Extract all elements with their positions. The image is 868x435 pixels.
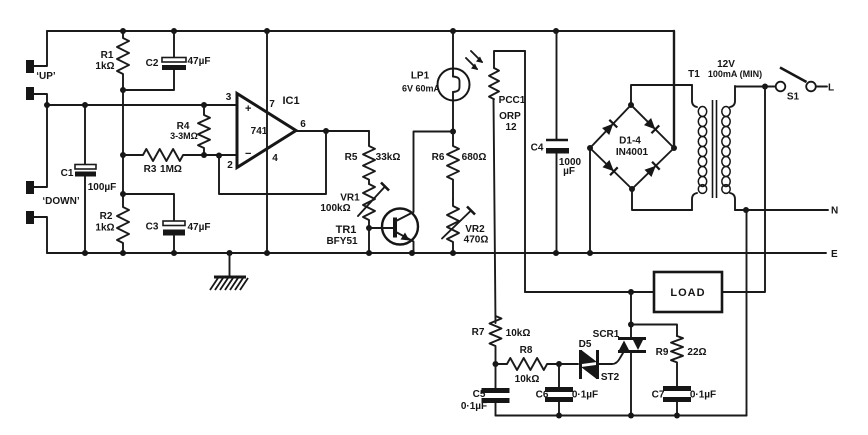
op-amp IC1 741 (226, 92, 307, 171)
wire feedback loop pin 2 to pin 6 (216, 131, 326, 194)
svg-text:+: + (245, 103, 251, 115)
capacitor C1 (61, 105, 117, 253)
svg-text:µF: µF (563, 166, 575, 177)
svg-text:1kΩ: 1kΩ (95, 61, 114, 72)
svg-text:C7: C7 (652, 390, 665, 401)
svg-text:IN4001: IN4001 (616, 147, 649, 158)
resistor R8 (496, 345, 563, 385)
preset VR2 (442, 199, 488, 253)
switch S1 (735, 68, 834, 103)
svg-text:R1: R1 (101, 50, 114, 61)
svg-text:R2: R2 (100, 211, 113, 222)
capacitor C7 (652, 386, 717, 416)
wire op-amp supply pin 7 / pin 4 (266, 31, 268, 253)
wire R1/C2 node down to R3 (122, 90, 124, 155)
resistor R2 (95, 155, 129, 253)
svg-text:3: 3 (226, 92, 232, 103)
triac SCR1 (593, 292, 646, 416)
wire bridge AC bottom to transformer primary (632, 189, 692, 210)
svg-text:R9: R9 (656, 347, 669, 358)
svg-text:L: L (828, 83, 834, 94)
resistor R3 (120, 149, 237, 175)
svg-text:T1: T1 (688, 69, 700, 80)
svg-text:47µF: 47µF (188, 56, 211, 67)
svg-text:6V 60mA: 6V 60mA (402, 84, 441, 94)
lamp LP1 (402, 31, 470, 135)
wire op-amp output pin 6 (296, 128, 369, 134)
svg-text:R3: R3 (144, 164, 157, 175)
resistor R1 (95, 31, 129, 93)
svg-text:10kΩ: 10kΩ (506, 328, 531, 339)
svg-text:E: E (831, 249, 838, 260)
svg-text:C5: C5 (473, 389, 486, 400)
svg-text:C4: C4 (531, 143, 544, 154)
ground symbol (210, 253, 248, 290)
svg-text:100µF: 100µF (88, 182, 117, 193)
svg-text:C1: C1 (61, 168, 74, 179)
wire non-inverting input (pin 3) (44, 102, 237, 108)
svg-text:22Ω: 22Ω (687, 347, 706, 358)
svg-text:LP1: LP1 (411, 71, 430, 82)
pushbutton UP (26, 31, 56, 105)
svg-text:10kΩ: 10kΩ (515, 374, 540, 385)
load box (654, 272, 722, 312)
svg-text:R6: R6 (432, 152, 445, 163)
wire bridge minus to ground rail (589, 148, 591, 253)
svg-text:100mA (MIN): 100mA (MIN) (708, 69, 762, 79)
svg-text:470Ω: 470Ω (464, 235, 489, 246)
svg-text:12: 12 (505, 122, 517, 133)
resistor R5 (345, 131, 401, 184)
svg-text:‘UP’: ‘UP’ (36, 71, 56, 82)
wire bridge plus to top rail (673, 31, 675, 148)
svg-text:680Ω: 680Ω (462, 152, 487, 163)
diac D5 ST2 (559, 339, 623, 383)
capacitor C5 (461, 364, 510, 416)
svg-text:2: 2 (227, 160, 233, 171)
resistor R4 (170, 105, 210, 158)
svg-text:741: 741 (251, 126, 268, 137)
wire neutral down to trigger circuit (746, 210, 748, 416)
svg-text:VR2: VR2 (465, 224, 485, 235)
capacitor C4 (531, 31, 582, 253)
svg-text:1MΩ: 1MΩ (160, 164, 182, 175)
svg-text:PCC1: PCC1 (499, 95, 526, 106)
svg-text:0·1µF: 0·1µF (690, 390, 716, 401)
svg-text:3-3MΩ: 3-3MΩ (170, 131, 198, 141)
photocell PCC1 ORP12 (466, 51, 526, 323)
svg-text:0·1µF: 0·1µF (572, 390, 598, 401)
svg-text:TR1: TR1 (336, 224, 357, 236)
wire trigger circuit bottom rail (496, 413, 747, 419)
svg-text:N: N (831, 206, 838, 217)
wire gate branch to R9 (631, 325, 677, 337)
transistor TR1 BFY51 (326, 132, 453, 254)
resistor R7 (472, 316, 531, 367)
svg-text:R5: R5 (345, 152, 358, 163)
svg-text:ST2: ST2 (601, 372, 620, 383)
svg-text:R7: R7 (472, 327, 485, 338)
svg-text:IC1: IC1 (282, 95, 299, 107)
wire PCC1 top to load line (524, 51, 526, 292)
svg-text:47µF: 47µF (188, 222, 211, 233)
wire neutral N (735, 206, 838, 217)
capacitor C2 (123, 31, 211, 90)
svg-text:C2: C2 (146, 58, 159, 69)
svg-text:D5: D5 (579, 339, 592, 350)
wire top supply rail (47, 28, 674, 34)
svg-text:0·1µF: 0·1µF (461, 401, 487, 412)
bridge rectifier D1-4 IN4001 (587, 102, 677, 192)
svg-text:ORP: ORP (499, 111, 521, 122)
capacitor C3 (123, 194, 211, 253)
svg-text:33kΩ: 33kΩ (376, 152, 401, 163)
svg-text:D1-4: D1-4 (619, 136, 641, 147)
resistor R9 (656, 336, 707, 386)
svg-text:4: 4 (272, 153, 278, 164)
svg-text:100kΩ: 100kΩ (320, 203, 350, 214)
resistor R6 (432, 132, 487, 200)
svg-text:VR1: VR1 (340, 193, 360, 204)
svg-text:LOAD: LOAD (670, 287, 705, 299)
svg-text:‘DOWN’: ‘DOWN’ (42, 196, 79, 207)
svg-text:SCR1: SCR1 (593, 329, 620, 340)
svg-text:R8: R8 (520, 345, 533, 356)
svg-text:6: 6 (300, 119, 306, 130)
svg-text:7: 7 (269, 99, 275, 110)
svg-text:1kΩ: 1kΩ (95, 223, 114, 234)
ground rail / E line (47, 249, 838, 260)
wire load feed line (525, 289, 654, 295)
svg-text:BFY51: BFY51 (326, 236, 358, 247)
pushbutton DOWN (26, 105, 80, 253)
potentiometer VR1 (320, 183, 389, 229)
transformer T1 (688, 59, 762, 210)
capacitor C6 (536, 364, 599, 416)
wire bridge AC top to transformer primary (631, 85, 692, 105)
svg-text:−: − (245, 148, 251, 160)
svg-text:S1: S1 (787, 92, 800, 103)
svg-text:C3: C3 (146, 222, 159, 233)
wire live feed down to load (722, 87, 765, 293)
svg-text:C6: C6 (536, 390, 549, 401)
